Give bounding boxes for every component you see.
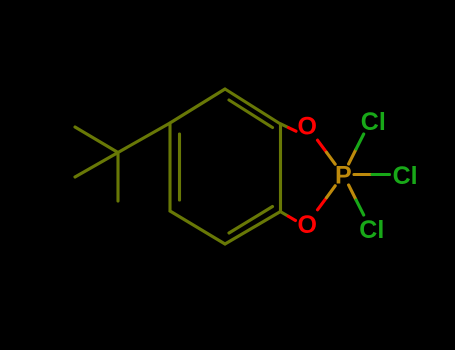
benzene ring bond B-C (right vertical, fused edge) [279, 124, 282, 212]
bond P-Cl3 chlorine half [356, 200, 364, 215]
svg-text:Cl: Cl [359, 216, 384, 244]
aromatic inner line parallel to A-B [229, 100, 273, 128]
bond P-Cl1 chlorine half [356, 134, 364, 149]
aromatic inner line parallel to E-F [178, 134, 181, 200]
bond P-Cl2 chlorine half [372, 173, 390, 176]
benzene ring bond F-A (top-left diagonal) [170, 89, 225, 123]
benzene ring bond A-B (top-right diagonal) [225, 89, 281, 124]
svg-text:O: O [297, 113, 316, 141]
aromatic inner line parallel to C-D [229, 207, 273, 234]
bond O1-P phosphorus half [327, 152, 336, 164]
tert-butyl bond F-G (ring to quaternary carbon) [118, 123, 170, 153]
bond B-O1 oxygen half [289, 128, 297, 132]
bond B-O1 carbon half [281, 124, 289, 128]
benzene ring bond C-D (bottom-right diagonal) [225, 212, 281, 245]
bond P-Cl1 phosphorus half [349, 149, 357, 164]
svg-text:P: P [335, 162, 352, 190]
tert-butyl methyl bond G-H2 (down-left) [75, 153, 118, 178]
svg-text:Cl: Cl [361, 108, 386, 136]
benzene ring bond E-F (left vertical) [168, 123, 171, 211]
bond C-O2 oxygen half [288, 216, 295, 220]
bond O2-P phosphorus half [327, 186, 336, 198]
bond C-O2 carbon half [281, 212, 289, 217]
tert-butyl methyl bond G-H3 (down vertical) [116, 153, 119, 202]
bond P-Cl3 phosphorus half [349, 185, 357, 200]
benzene ring bond D-E (bottom-left diagonal) [170, 211, 225, 244]
svg-text:O: O [297, 211, 316, 239]
svg-text:Cl: Cl [393, 162, 418, 190]
tert-butyl methyl bond G-H1 (up-left) [75, 127, 118, 153]
bond O1-P oxygen half [318, 140, 327, 152]
bond P-Cl2 phosphorus half [354, 173, 372, 176]
bond O2-P oxygen half [318, 198, 327, 210]
